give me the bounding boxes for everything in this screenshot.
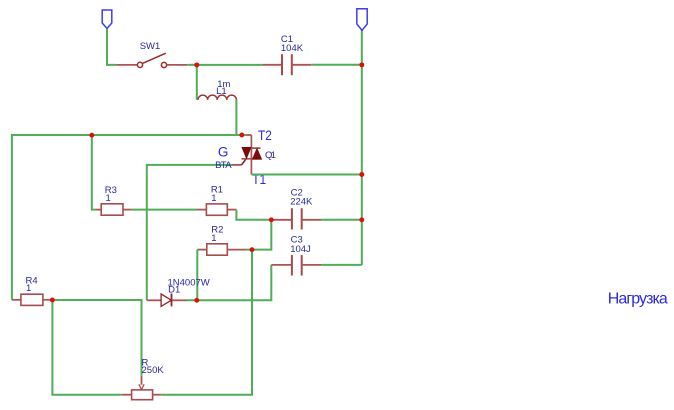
triac Q1 BTA: [215, 128, 276, 187]
junction dot: C2 right rail: [359, 217, 364, 222]
svg-text:250K: 250K: [142, 365, 165, 376]
junction dot: long wire / R3 branch: [89, 133, 94, 138]
svg-text:L1: L1: [216, 86, 227, 97]
svg-text:Q1: Q1: [265, 150, 276, 161]
diode D1 1N4007W: [147, 278, 210, 307]
svg-text:D1: D1: [168, 285, 180, 296]
svg-text:T2: T2: [258, 128, 272, 143]
connector P1 (left): [102, 10, 112, 29]
switch SW1: [116, 41, 187, 68]
capacitor C2 224K: [271, 188, 321, 230]
svg-text:BTA: BTA: [215, 160, 232, 171]
connector P2 (right): [357, 9, 367, 31]
wire junction down to L1: [196, 65, 198, 100]
wire C2 to right rail: [322, 219, 362, 221]
resistor R4 1: [12, 276, 53, 306]
resistor R1 1: [197, 185, 236, 216]
long horizontal wire y=135 and left rail down to R4: [12, 135, 247, 300]
wire R2 right to corner up to C2 junction: [246, 222, 271, 250]
gate wire: vertical and horizontal to triac gate: [147, 165, 232, 300]
svg-text:104J: 104J: [290, 244, 311, 255]
junction dot: R4 right: [50, 298, 55, 303]
inductor L1 1m: [198, 79, 236, 100]
svg-text:1: 1: [211, 233, 216, 244]
resistor R2 1: [197, 224, 246, 255]
wire R4 junction down and right to pot left: [52, 300, 121, 395]
junction dot: T1 right rail: [359, 172, 364, 177]
svg-text:1: 1: [106, 193, 111, 204]
capacitor C3 104J: [271, 235, 321, 276]
wire C1 to right rail: [311, 64, 362, 66]
junction dot: D1 cathode: [194, 298, 199, 303]
wire R4 junction right then down to pot wiper: [52, 300, 141, 376]
junction dot: C2 left: [269, 217, 274, 222]
junction dot: C1 right rail: [359, 62, 364, 67]
wire L1 down to T2 node: [235, 100, 237, 135]
wire switch to C1: [187, 64, 263, 66]
wire T1 to right rail: [251, 174, 361, 176]
wire D1 junction right and up to C3: [187, 265, 272, 300]
wire from P1 down to switch: [107, 29, 116, 65]
resistor R3 1: [96, 185, 132, 215]
right rail from P2 down to C3 corner: [361, 30, 363, 265]
wire down to R3: [92, 135, 96, 209]
svg-text:Нагрузка: Нагрузка: [608, 291, 668, 308]
capacitor C1 104K: [263, 34, 311, 75]
gate red lead and diagonal: [232, 164, 241, 166]
svg-text:1: 1: [211, 193, 216, 204]
junction dot: switch node: [194, 62, 199, 67]
svg-text:1: 1: [26, 283, 31, 294]
wire R3 to R1: [131, 209, 197, 211]
potentiometer R 250K: [122, 358, 165, 400]
junction dot: R2 right: [250, 247, 255, 252]
svg-text:104K: 104K: [281, 43, 304, 54]
svg-text:224K: 224K: [290, 197, 313, 208]
wire R2 left down to D1 junction: [196, 250, 198, 301]
svg-text:SW1: SW1: [140, 41, 161, 52]
svg-text:G: G: [218, 145, 229, 160]
wire pot right up to R2 junction: [161, 250, 252, 395]
wire C3 to right rail corner: [322, 264, 362, 266]
junction dot: T2 node: [239, 133, 244, 138]
wire R1 to C2 junction: [236, 210, 271, 220]
